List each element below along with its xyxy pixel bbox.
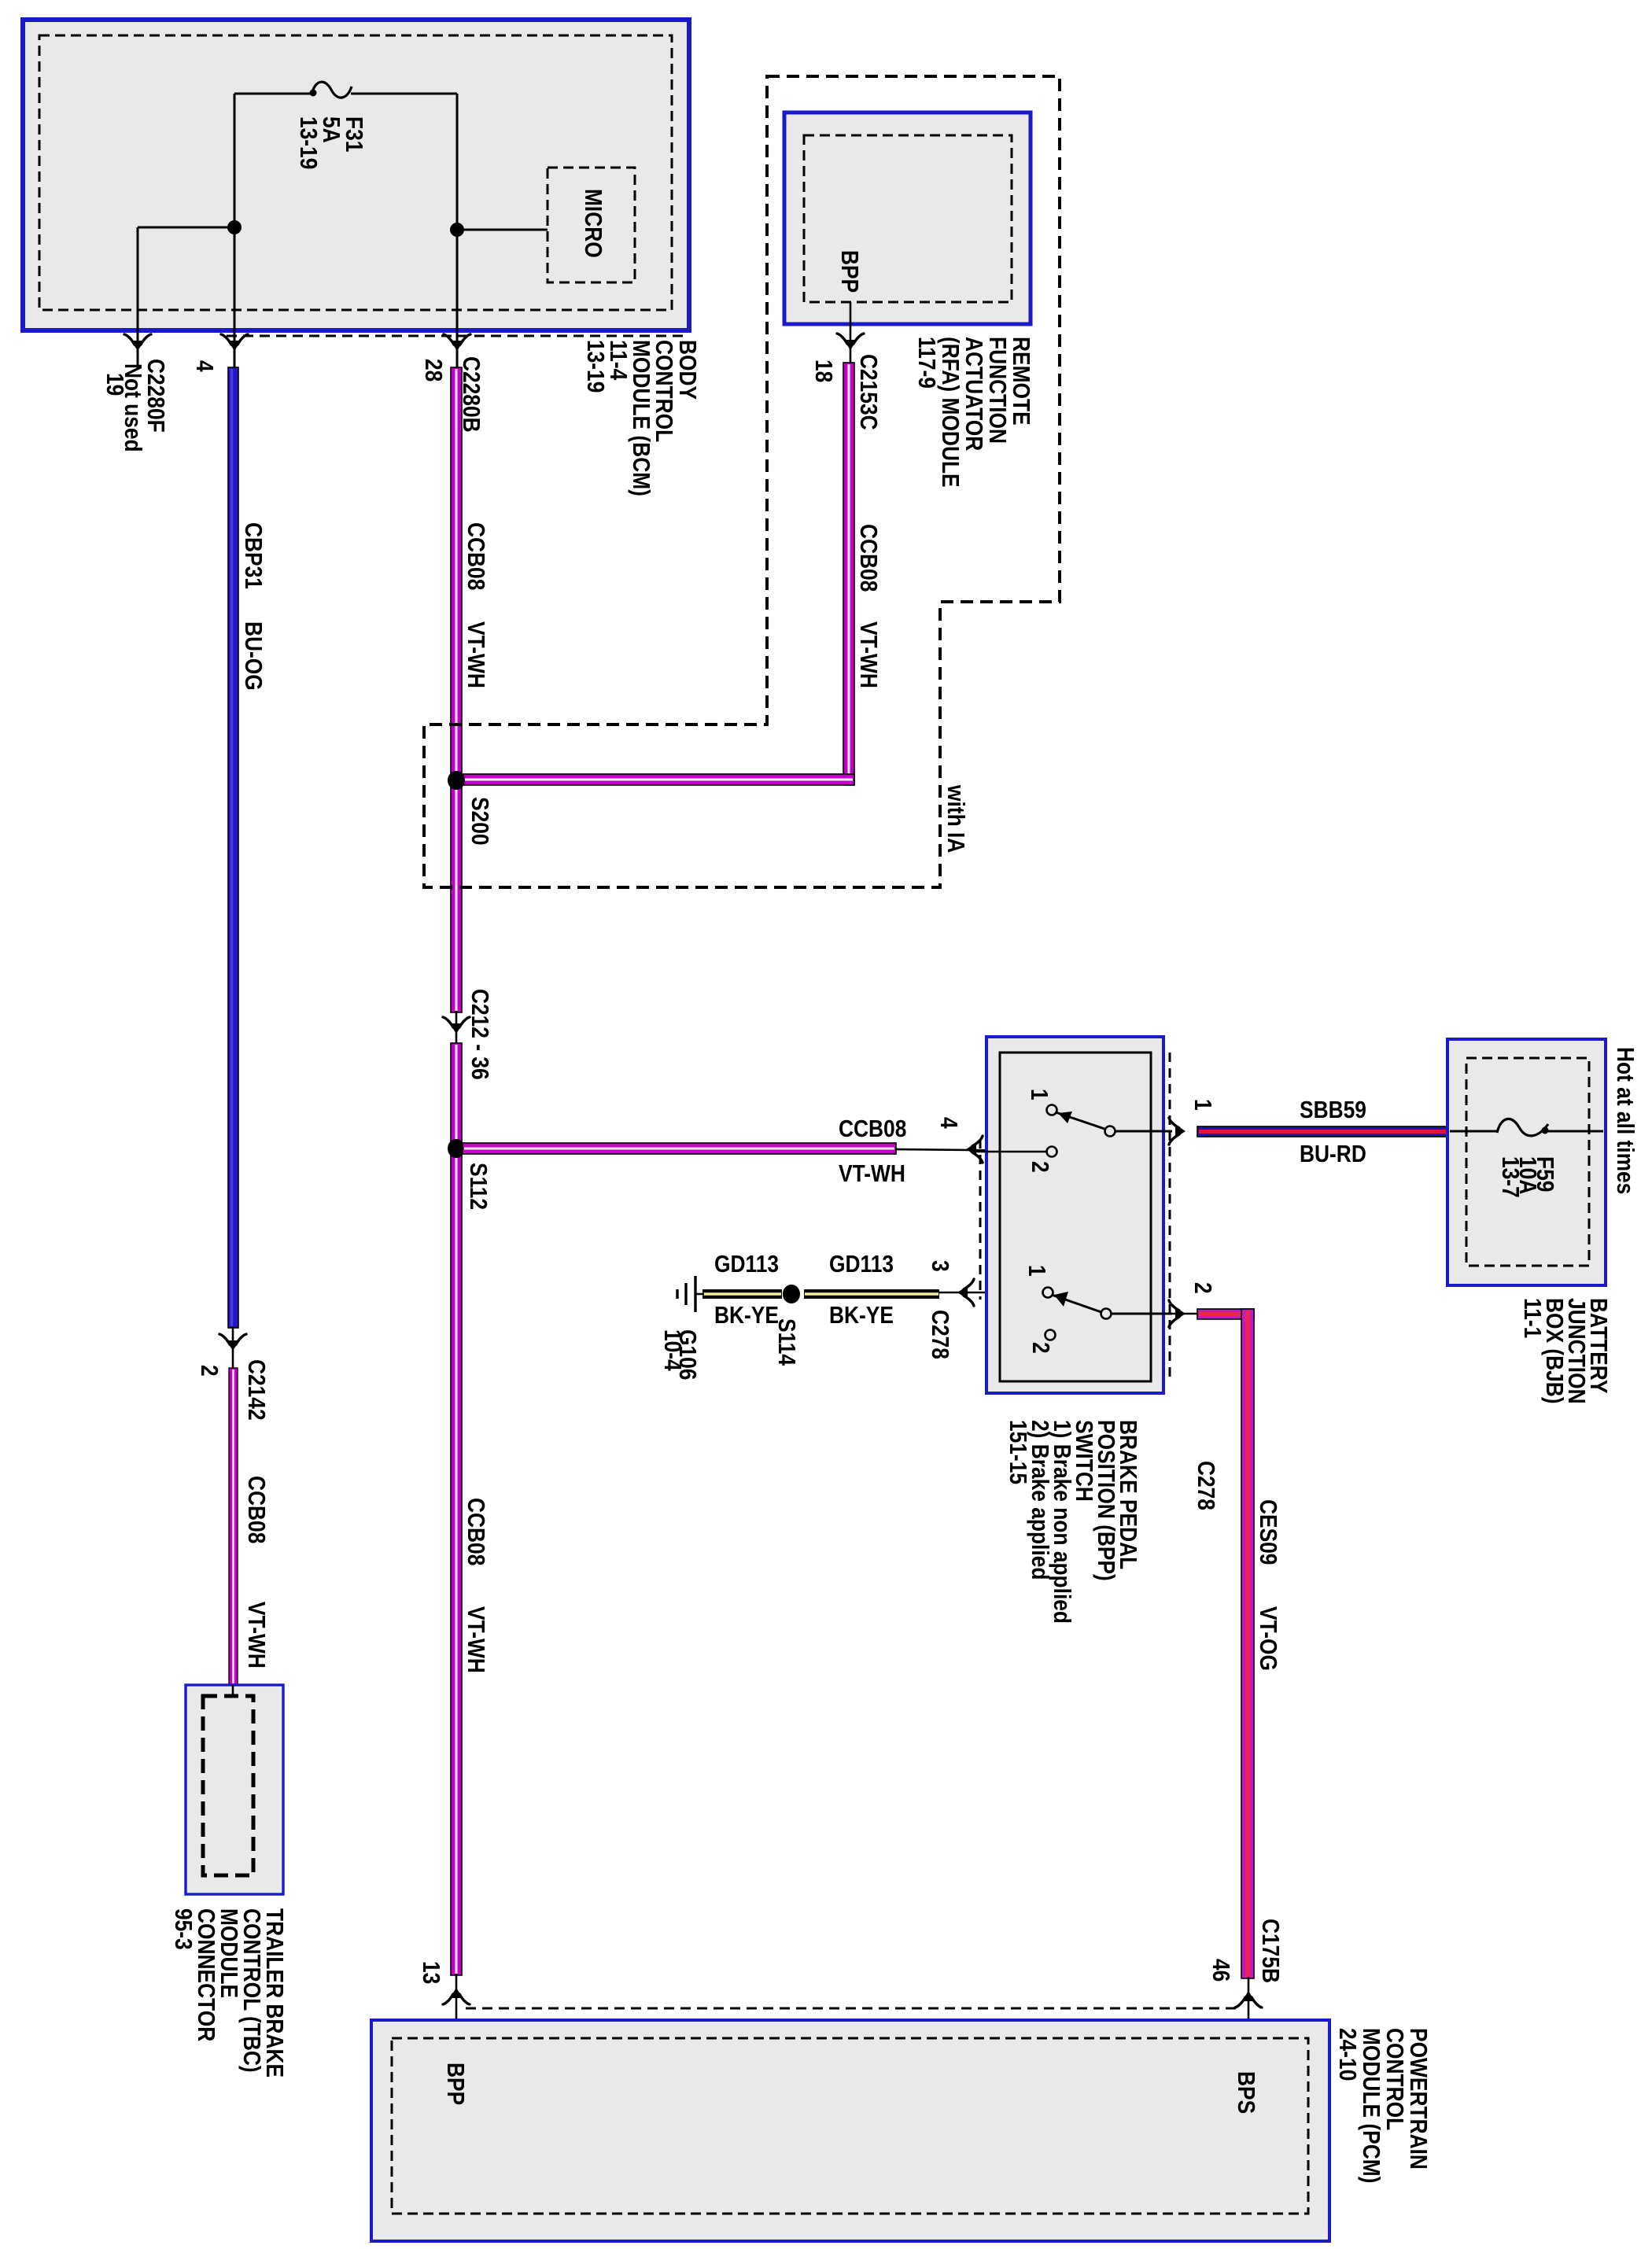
svg-text:S114: S114: [773, 1318, 799, 1366]
svg-text:46: 46: [1207, 1959, 1233, 1982]
svg-text:GD113: GD113: [714, 1251, 779, 1278]
label G106 10-4: [658, 1329, 700, 1380]
svg-text:S112: S112: [464, 1163, 491, 1210]
svg-text:BPP: BPP: [441, 2063, 468, 2105]
svg-text:4: 4: [190, 360, 217, 372]
svg-text:Hot at all times: Hot at all times: [1611, 1047, 1638, 1194]
pin symbol at switch pin 1 (right): [1169, 1118, 1186, 1145]
in-line connector C2142 on CBP31/CCB08 wire: [232, 1326, 234, 1370]
wire link into PCM pin 46: [1248, 1977, 1250, 2040]
label REMOTE FUNCTION ACTUATOR (RFA) MODULE 117-9: [913, 337, 1034, 488]
svg-text:with IA: with IA: [942, 784, 968, 853]
module RFA (Remote Function Actuator) box: [784, 112, 1031, 324]
svg-text:2: 2: [1189, 1282, 1215, 1294]
svg-text:28: 28: [419, 359, 446, 382]
ground wire GD113 BK-YE right segment: [804, 1289, 939, 1299]
wire CCB08 VT-WH thin run to TBC connector: [229, 1368, 238, 1685]
svg-text:CES09: CES09: [1254, 1499, 1281, 1565]
svg-text:1: 1: [1025, 1089, 1052, 1101]
svg-text:C278: C278: [926, 1310, 953, 1359]
wire CCB08 VT-WH (middle run S200 to PCM): [451, 1043, 462, 1975]
fuse F31 5A wire inside BCM: [234, 82, 457, 98]
label BODY CONTROL MODULE (BCM) 11-4 13-19: [581, 340, 700, 496]
label CCB08 VT-WH (RFA run): [854, 524, 881, 688]
label CCB08 VT-WH (pin 28 run): [462, 522, 489, 688]
dashed option region (RFA module + with IA splice): [424, 76, 1060, 887]
junction node inside BCM at fuse branch: [227, 220, 242, 234]
component TBC module connector box: [186, 1685, 283, 1894]
svg-text:BU-OG: BU-OG: [239, 621, 266, 691]
wire SBB59 BU-RD to battery junction box: [1197, 1126, 1449, 1137]
svg-text:13: 13: [417, 1961, 444, 1984]
ground wire GD113 BK-YE left segment: [702, 1289, 782, 1299]
wire CCB08 VT-WH horizontal S112 to BPP switch pin 4: [463, 1143, 896, 1154]
wire BCM internal vertical to pin 4: [234, 94, 236, 367]
wire to MICRO: [457, 229, 548, 231]
label CCB08 VT-WH (TBC run): [242, 1476, 269, 1668]
switch 2 contact labels 1 and 2: [1023, 1265, 1053, 1354]
svg-text:95-3: 95-3: [169, 1908, 196, 1950]
module PCM (Powertrain Control Module): [371, 2020, 1329, 2241]
svg-text:C2142: C2142: [242, 1359, 269, 1421]
svg-text:CCB08: CCB08: [462, 522, 489, 590]
pin symbol at switch pin 2 (right): [1169, 1300, 1186, 1327]
svg-text:117-9: 117-9: [913, 337, 939, 389]
fuse F31 value label: [294, 116, 367, 169]
svg-text:151-15: 151-15: [1004, 1420, 1031, 1484]
svg-text:13-19: 13-19: [581, 340, 608, 393]
label TRAILER BRAKE CONTROL (TBC) MODULE CONNECTOR 95-3: [169, 1908, 287, 2078]
svg-text:C212 - 36: C212 - 36: [466, 989, 492, 1080]
connector C2280 dashed line under BCM: [227, 335, 687, 337]
svg-text:CCB08: CCB08: [462, 1498, 489, 1565]
wire CES09 VT-OG vertical to PCM pin 46: [1241, 1309, 1254, 1978]
pin symbol at PCM pin 13: [443, 1988, 470, 2004]
svg-text:BPP: BPP: [835, 250, 862, 293]
svg-text:VT-WH: VT-WH: [462, 621, 489, 688]
wire link into switch pin 3: [939, 1292, 1043, 1294]
in-line connector C212-36 on CCB08 wire: [455, 1011, 458, 1045]
wire CBP31 BU-OG vertical: [228, 367, 238, 1328]
wire stub RFA pin 18: [850, 302, 852, 363]
pin symbol at switch pin 3: [957, 1279, 974, 1306]
MICRO block (dashed): [548, 168, 635, 282]
fuse F59 value label: [1496, 1156, 1558, 1198]
ground symbol G106: [677, 1276, 704, 1312]
switch 2 (lower) blade and contacts: [1043, 1288, 1173, 1340]
pin 18 connector symbol: [837, 334, 864, 350]
svg-text:C278: C278: [1192, 1461, 1219, 1510]
svg-text:11-1: 11-1: [1518, 1298, 1545, 1338]
svg-text:GD113: GD113: [829, 1251, 894, 1278]
svg-text:VT-WH: VT-WH: [839, 1160, 905, 1187]
module BCM (Body Control Module) box: [23, 20, 689, 330]
pin 19 connector symbol: [124, 334, 151, 351]
svg-text:S200: S200: [466, 797, 492, 846]
svg-text:SBB59: SBB59: [1300, 1097, 1366, 1123]
svg-text:C175B: C175B: [1256, 1919, 1283, 1983]
svg-text:BU-RD: BU-RD: [1300, 1141, 1366, 1167]
svg-text:CCB08: CCB08: [839, 1115, 906, 1142]
pin 4 connector symbol: [221, 334, 248, 351]
svg-text:MICRO: MICRO: [579, 189, 606, 258]
wire link into switch pin 4: [896, 1149, 1047, 1151]
connector C2142 symbol: [219, 1334, 246, 1351]
svg-text:CCB08: CCB08: [242, 1476, 269, 1543]
wire CCB08 VT-WH from RFA pin 18 (vertical): [843, 363, 854, 785]
pin symbol at switch pin 4: [966, 1136, 983, 1163]
svg-text:13-19: 13-19: [294, 116, 321, 169]
splice S200 junction dot: [448, 771, 465, 790]
connector C212 symbol: [443, 1017, 470, 1034]
connector C278 dashed line (left side): [979, 1139, 982, 1300]
svg-text:C2153C: C2153C: [854, 354, 881, 430]
switch 1 contact labels 1 and 2: [1025, 1089, 1053, 1173]
svg-text:BK-YE: BK-YE: [829, 1302, 894, 1329]
svg-text:1: 1: [1023, 1265, 1049, 1277]
svg-text:3: 3: [926, 1260, 953, 1272]
label CBP31 BU-OG: [239, 522, 266, 691]
wire CCB08 VT-WH horizontal run to S200: [461, 774, 854, 785]
wire BCM internal branch to pin 19: [138, 227, 234, 370]
label BATTERY JUNCTION BOX (BJB) 11-1: [1518, 1298, 1611, 1404]
label C2280F Not used: [119, 359, 168, 452]
svg-text:VT-OG: VT-OG: [1254, 1606, 1281, 1671]
wire CES09 VT-OG elbow horizontal: [1197, 1309, 1254, 1319]
wire link into PCM pin 13: [455, 1974, 458, 2040]
svg-text:1: 1: [1189, 1099, 1215, 1111]
svg-text:VT-WH: VT-WH: [854, 621, 881, 688]
splice S112 junction dot: [448, 1139, 465, 1158]
svg-text:BK-YE: BK-YE: [714, 1302, 779, 1329]
svg-text:Not used: Not used: [119, 363, 146, 452]
wire CCB08 VT-WH from BCM pin 28 (upper run): [451, 367, 462, 1012]
svg-text:10-4: 10-4: [658, 1329, 685, 1371]
svg-text:CBP31: CBP31: [239, 522, 266, 589]
svg-text:2: 2: [1027, 1342, 1053, 1354]
splice S114 junction dot: [783, 1285, 800, 1303]
label CES09 VT-OG: [1254, 1499, 1281, 1671]
svg-text:CCB08: CCB08: [854, 524, 881, 592]
label POWERTRAIN CONTROL MODULE (PCM) 24-10: [1333, 2028, 1431, 2183]
wire link switch pin 2 to CES09: [1112, 1313, 1199, 1315]
svg-text:24-10: 24-10: [1333, 2028, 1360, 2081]
svg-text:VT-WH: VT-WH: [242, 1602, 269, 1668]
pin 28 connector symbol: [444, 334, 470, 351]
module BJB (Battery Junction Box): [1447, 1039, 1606, 1285]
label CCB08 VT-WH (lower run): [462, 1498, 489, 1673]
connector C175E dashed line above PCM: [466, 2008, 1237, 2010]
svg-text:4: 4: [935, 1117, 961, 1129]
svg-text:VT-WH: VT-WH: [462, 1606, 489, 1673]
svg-text:2: 2: [195, 1365, 222, 1377]
switch 1 (upper) blade and contacts: [975, 1105, 1172, 1157]
svg-text:13-7: 13-7: [1496, 1156, 1523, 1198]
wire BCM internal vertical to pin 28: [456, 94, 459, 367]
svg-text:BPS: BPS: [1232, 2071, 1259, 2114]
svg-text:18: 18: [809, 359, 836, 382]
pin symbol at PCM pin 46: [1235, 1991, 1262, 2008]
fuse F59 10A wire inside BJB: [1450, 1119, 1603, 1135]
component BPP switch box: [986, 1037, 1163, 1393]
junction node inside BCM at MICRO branch: [450, 223, 464, 237]
label BRAKE PEDAL POSITION (BPP) SWITCH notes: [1004, 1420, 1141, 1624]
svg-text:2: 2: [1026, 1161, 1053, 1173]
connector C278 dashed line (right side): [1169, 1053, 1171, 1381]
